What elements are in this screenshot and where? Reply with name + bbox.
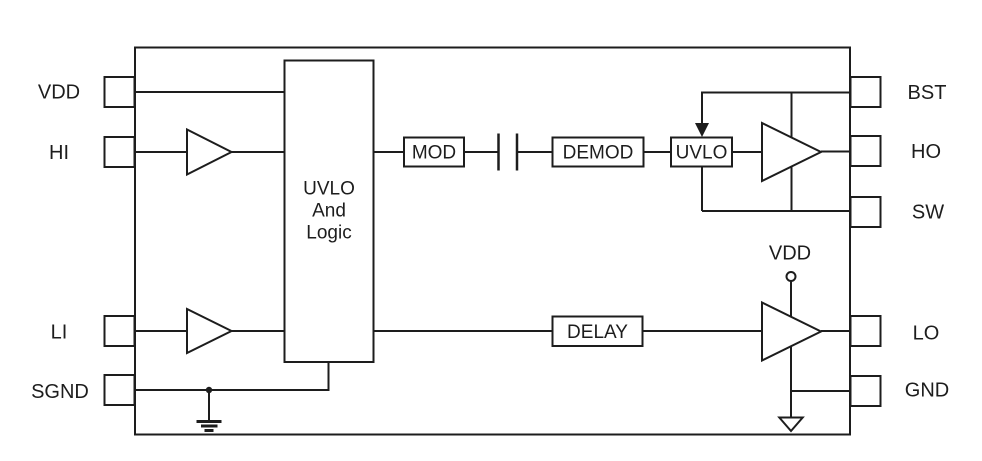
svg-text:SW: SW <box>912 202 944 224</box>
svg-text:UVLO: UVLO <box>676 143 728 164</box>
svg-text:SGND: SGND <box>31 381 89 403</box>
svg-text:HI: HI <box>49 142 69 164</box>
driver HO output <box>762 123 821 181</box>
wire VDD pin to logic block <box>135 91 285 93</box>
svg-text:GND: GND <box>905 380 949 402</box>
block DELAY <box>553 317 643 347</box>
capacitor isolation barrier plate 1 <box>497 134 500 171</box>
wire HO driver supply rail <box>791 93 793 212</box>
pin LO <box>851 316 940 346</box>
buffer LI input <box>187 309 232 353</box>
buffer HI input <box>187 130 232 175</box>
svg-text:DEMOD: DEMOD <box>563 143 634 164</box>
svg-text:VDD: VDD <box>769 243 811 265</box>
pin LI <box>51 316 135 346</box>
svg-text:LI: LI <box>51 322 68 344</box>
block MOD <box>404 138 464 167</box>
svg-text:HO: HO <box>911 141 941 163</box>
pin GND <box>851 376 950 406</box>
arrowhead into UVLO <box>695 123 709 137</box>
block DEMOD <box>553 138 644 167</box>
pin HI <box>49 137 135 167</box>
ground SGND symbol <box>197 422 222 431</box>
svg-text:MOD: MOD <box>412 143 456 164</box>
wire logic block to DELAY <box>374 330 553 332</box>
wire logic block to MOD <box>374 151 405 153</box>
pin HO <box>851 136 942 166</box>
wire SGND pin to logic block <box>135 362 329 390</box>
block U1 UVLO And Logic <box>285 61 374 363</box>
wire LO driver to ground arrow <box>790 347 792 419</box>
wire junction to signal ground <box>208 390 210 421</box>
pin SGND <box>31 375 134 405</box>
wire BST rail <box>702 93 850 125</box>
wire LO driver to LO pin <box>821 330 850 332</box>
svg-text:And: And <box>312 201 346 222</box>
wire MOD to isolation capacitor <box>464 151 499 153</box>
pin BST <box>851 77 947 107</box>
pin SW <box>851 197 945 227</box>
wire capacitor to DEMOD <box>517 151 553 153</box>
svg-text:VDD: VDD <box>38 82 80 104</box>
svg-text:LO: LO <box>913 323 940 345</box>
svg-text:BST: BST <box>908 82 947 104</box>
wire HI buffer to logic block <box>232 151 285 153</box>
pin VDD <box>38 77 135 107</box>
svg-text:DELAY: DELAY <box>567 322 628 343</box>
wire UVLO bottom to SW rail <box>701 167 703 212</box>
svg-text:Logic: Logic <box>306 223 351 244</box>
wire DELAY to LO driver <box>643 330 763 332</box>
svg-text:UVLO: UVLO <box>303 179 355 200</box>
wire LI pin to input buffer <box>135 330 188 332</box>
block UVLO (high side) <box>671 138 732 167</box>
wire SW rail <box>702 210 850 212</box>
node junction on SGND wire <box>206 387 212 393</box>
wire DEMOD to UVLO <box>644 151 672 153</box>
wire HO driver to HO pin <box>821 151 850 153</box>
IC boundary box <box>135 48 850 435</box>
capacitor isolation barrier plate 2 <box>516 134 519 171</box>
wire HI pin to input buffer <box>135 151 188 153</box>
node VDD (low-side supply) <box>769 243 811 282</box>
ground arrow (power ground) <box>779 418 802 432</box>
wire LI buffer to logic block <box>232 330 285 332</box>
wire VDD terminal to LO driver <box>790 281 792 318</box>
wire ground rail to GND pin <box>791 390 850 392</box>
wire UVLO to HO driver <box>732 151 762 153</box>
driver LO output <box>762 303 821 361</box>
